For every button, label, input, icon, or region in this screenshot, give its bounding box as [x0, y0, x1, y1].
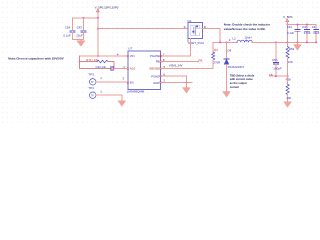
svg-text:R68: R68 — [286, 77, 292, 81]
svg-text:U7: U7 — [128, 46, 132, 50]
ground R68 — [284, 102, 292, 107]
svg-text:FB: FB — [269, 73, 273, 77]
note diode select text — [229, 73, 255, 89]
transistor Q4 MFET_PCH — [184, 19, 206, 45]
capacitor C45 47uF — [302, 23, 311, 43]
wire gate to PGATE — [161, 38, 191, 56]
wire PGND — [161, 76, 187, 82]
wire to mosfet source — [98, 28, 188, 30]
node C43 tee — [83, 17, 85, 19]
svg-text:as the output: as the output — [230, 81, 247, 85]
node PGND-GND — [186, 81, 188, 83]
svg-text:C56: C56 — [272, 58, 278, 62]
wire output cap rail — [287, 23, 316, 25]
ground diode — [223, 92, 231, 97]
svg-text:47UF: 47UF — [304, 31, 311, 35]
svg-text:V_5P0,15P0,20P0: V_5P0,15P0,20P0 — [95, 5, 119, 9]
inductor L2 10uH — [229, 36, 253, 43]
svg-text:10K: 10K — [286, 96, 291, 100]
node C56-FB — [275, 75, 277, 77]
resistor R68 10K — [286, 76, 292, 102]
svg-text:0.1uF: 0.1uF — [287, 31, 294, 35]
svg-text:1: 1 — [100, 89, 102, 93]
wire GND pin — [161, 81, 193, 83]
wire drain to switch node — [203, 29, 221, 43]
ground TP4 — [118, 101, 126, 106]
power flag V_5P0 — [283, 15, 293, 22]
resistor R69 10K — [286, 42, 294, 76]
svg-text:value/Screen the value in EB.: value/Screen the value in EB. — [224, 27, 266, 31]
capacitor C54 — [63, 18, 74, 40]
svg-text:C54: C54 — [65, 25, 71, 29]
svg-text:47uF: 47uF — [313, 31, 320, 35]
capacitor C46 47uF — [312, 24, 320, 43]
power flag V_5P0,15P0,20P0 — [95, 5, 119, 12]
svg-text:0.1uF: 0.1uF — [63, 33, 71, 37]
test point TP4 — [88, 86, 102, 98]
wire cap bottoms — [72, 38, 83, 40]
node mosfet tee — [97, 28, 99, 30]
svg-text:ADJ: ADJ — [130, 67, 136, 71]
svg-text:R69: R69 — [289, 47, 295, 51]
wire cap branch horizontal — [72, 17, 98, 19]
svg-text:FB: FB — [156, 60, 160, 64]
svg-text:10K: 10K — [288, 60, 293, 64]
ground input caps — [80, 39, 82, 40]
svg-text:VIN: VIN — [130, 54, 135, 58]
wire TP4 to ground — [96, 95, 122, 101]
svg-text:VSNS_24V: VSNS_24V — [169, 63, 183, 67]
node rail tee — [286, 23, 288, 25]
node diode junction — [226, 41, 228, 43]
resistor R2 270R — [212, 42, 221, 68]
svg-text:C44: C44 — [287, 25, 293, 29]
svg-text:R76 / 1W: R76 / 1W — [86, 58, 98, 62]
node output junction — [286, 41, 288, 43]
svg-text:C33 1nF: C33 1nF — [96, 65, 107, 69]
svg-text:TP: TP — [91, 81, 94, 84]
svg-text:100pF: 100pF — [273, 66, 282, 70]
svg-text:3: 3 — [123, 76, 125, 80]
svg-text:L2: L2 — [232, 36, 236, 40]
wire VIN — [80, 55, 128, 57]
svg-text:with current same: with current same — [229, 77, 254, 81]
svg-text:ISENSE: ISENSE — [149, 67, 159, 71]
svg-text:EN: EN — [130, 80, 134, 84]
svg-text:270R: 270R — [213, 61, 220, 65]
svg-text:2: 2 — [229, 38, 231, 42]
wire ISENSE — [161, 68, 214, 70]
svg-text:PGATE: PGATE — [150, 54, 159, 58]
svg-text:R2: R2 — [214, 48, 218, 52]
svg-text:1: 1 — [100, 76, 102, 80]
svg-text:S: S — [184, 25, 186, 29]
capacitor C56 100pF — [272, 41, 282, 76]
note inductor text — [224, 23, 271, 32]
wire ADJ — [114, 68, 128, 70]
test point TP3 — [88, 73, 102, 85]
svg-text:TP4: TP4 — [88, 86, 94, 90]
capacitor C44 0.1uF — [287, 23, 300, 43]
node divider-FB — [287, 75, 289, 77]
wire EN — [96, 81, 128, 83]
svg-text:PGND: PGND — [151, 75, 159, 79]
svg-text:GND: GND — [153, 81, 159, 85]
resistor R76 1W with capacitor C33 1nF — [79, 56, 115, 71]
svg-text:TP3: TP3 — [88, 73, 94, 77]
svg-text:TBD:Select a diode: TBD:Select a diode — [230, 73, 255, 77]
wire FB pin — [161, 61, 199, 63]
svg-text:D8: D8 — [228, 48, 232, 52]
node drain junction — [219, 41, 221, 43]
wire input rail vertical — [97, 12, 99, 56]
diode D8 SS16 — [224, 42, 245, 91]
capacitor C43 — [76, 18, 86, 40]
svg-text:SS16-E3/61T: SS16-E3/61T — [228, 65, 245, 69]
svg-text:Note: Double check the inducto: Note: Double check the inductor — [224, 23, 271, 27]
svg-text:22uF: 22uF — [76, 33, 83, 37]
wire FB net — [269, 75, 287, 77]
wire output — [252, 41, 316, 43]
op-amp U7 LM3489QMM — [127, 46, 162, 93]
svg-text:C43: C43 — [77, 25, 83, 29]
wire V_5P0 vertical — [286, 22, 288, 43]
svg-text:current: current — [230, 85, 239, 89]
svg-text:FB: FB — [199, 58, 203, 62]
ground output caps — [297, 42, 299, 44]
node vin tee — [97, 55, 99, 57]
svg-text:V_5P0: V_5P0 — [283, 15, 293, 19]
svg-text:LM3489QMM: LM3489QMM — [127, 90, 145, 94]
node input-cap tee — [97, 17, 99, 19]
svg-text:Note:Choose capacitors with 25: Note:Choose capacitors with 25V/50V — [8, 57, 64, 61]
svg-text:TP: TP — [91, 94, 94, 97]
ground IC — [186, 82, 188, 87]
wire switch node horizontal — [214, 41, 238, 43]
